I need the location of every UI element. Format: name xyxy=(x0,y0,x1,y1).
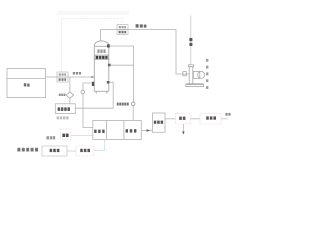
label feed pump text xyxy=(73,72,81,75)
wire cyan link big tank to pump room xyxy=(94,140,105,151)
tank big cell texts xyxy=(94,130,104,133)
label left of blowdown box xyxy=(46,136,55,139)
tank big (condensate tank, 3 cells) xyxy=(93,121,142,140)
node side flange xyxy=(108,64,111,67)
wire feed line xyxy=(46,76,95,78)
box water tank (dashed) xyxy=(176,114,191,125)
node arrow into column xyxy=(91,76,94,78)
node bottoms nozzle xyxy=(107,81,110,83)
wire bottoms outlet xyxy=(109,82,113,108)
wire between rooms xyxy=(67,150,76,152)
label vertical text right of E1 xyxy=(206,59,208,89)
wire to cooling box xyxy=(191,118,201,120)
wire column overhead to condenser xyxy=(100,30,189,75)
label on makeup line (vertical 2 chars) xyxy=(189,38,192,41)
wire recirculation line xyxy=(83,83,93,128)
pump P2 (circle symbol on drop line) xyxy=(131,102,135,106)
column C1 (stripping column) xyxy=(94,41,109,94)
column C1 model band xyxy=(95,55,108,60)
node dome nozzle xyxy=(107,44,110,47)
label condensate text xyxy=(117,103,129,106)
tank T1 (feed water tank) xyxy=(7,69,46,98)
valve V1 (diamond) xyxy=(69,77,71,92)
instrument box FI (stacked pair on feed line) xyxy=(57,72,68,82)
label under box xyxy=(57,116,69,119)
box pump room xyxy=(42,146,67,156)
tank T1 label xyxy=(24,83,30,86)
node inlet flange E1 xyxy=(183,72,186,76)
column C1 tag text xyxy=(97,49,105,53)
wire drain header xyxy=(75,107,113,109)
pump P1 (circle symbol) xyxy=(81,90,85,94)
wire cyan link blowdown to tank xyxy=(71,135,93,137)
wire makeup water drop xyxy=(190,16,192,65)
ejector E1 (vessel+pump+base) xyxy=(186,65,205,87)
instrument box TC (stacked pair on overhead line) xyxy=(117,25,128,35)
box fan room (dashed) xyxy=(76,146,94,156)
valve V1 label text xyxy=(59,94,66,96)
label steam text xyxy=(136,24,147,27)
box heat exchanger xyxy=(153,113,166,132)
faint top smudge xyxy=(57,11,129,15)
box blowdown (faint) xyxy=(60,129,71,140)
wire condensate drop line xyxy=(110,46,134,102)
wire drain below water box xyxy=(182,124,184,132)
label discharge text xyxy=(225,113,230,116)
wire dashed signal line xyxy=(62,19,123,72)
wire outlet right xyxy=(221,118,228,120)
label bottom-left row text xyxy=(17,148,38,152)
wire outlet to heat exchanger xyxy=(141,130,152,132)
node lower left nozzle xyxy=(92,82,94,86)
wire side draw line xyxy=(111,64,134,66)
wire to water box xyxy=(165,118,176,120)
box cooling tower (dashed) xyxy=(200,114,221,125)
box recovery valve xyxy=(55,104,75,114)
